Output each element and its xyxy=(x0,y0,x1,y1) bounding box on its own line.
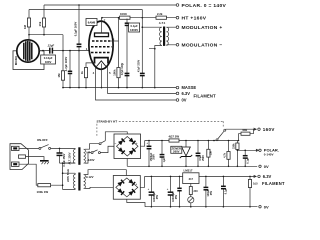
svg-text:0.1µF: 0.1µF xyxy=(246,157,249,164)
svg-text:ALT. 230V: ALT. 230V xyxy=(68,152,72,164)
capacitor 4.7uF 160V (x=70) xyxy=(64,50,72,88)
resistor 1k cathode (x=86) xyxy=(80,63,96,88)
svg-text:LM317: LM317 xyxy=(184,169,193,173)
svg-text:4.7k: 4.7k xyxy=(223,152,226,157)
svg-text:0.1µF 160V: 0.1µF 160V xyxy=(73,22,77,37)
tube heater xyxy=(97,61,107,67)
wire: primary common (x=62.6) xyxy=(60,162,76,189)
svg-text:317: 317 xyxy=(189,177,194,181)
svg-text:6.3V: 6.3V xyxy=(263,174,272,179)
capacitor 47uF 250V (x=196.5) xyxy=(196,141,205,168)
svg-text:47µF 330V: 47µF 330V xyxy=(138,60,141,73)
wire: ground bus top circuit y=87.6 xyxy=(62,87,176,89)
svg-text:180k: 180k xyxy=(112,69,116,76)
stand-by switch contacts (T1 secondary) xyxy=(85,132,128,163)
svg-text:2.2k: 2.2k xyxy=(157,12,163,16)
capacitor 100uF 25V (x=205.9) xyxy=(204,176,213,207)
resistor 180k screen (x=118.5) xyxy=(111,18,120,88)
svg-text:→130V: →130V xyxy=(85,158,94,162)
resistor 1M grid leak (x=63) xyxy=(57,35,65,88)
svg-text:350V: 350V xyxy=(153,154,156,160)
svg-text:250V: 250V xyxy=(202,155,205,161)
terminal MASSE xyxy=(176,85,196,90)
capacitor 47uF 330V (x=142.3) xyxy=(138,10,145,89)
svg-text:15k: 15k xyxy=(38,21,42,26)
wire: 0V bus y=166.3 xyxy=(127,165,257,167)
svg-text:1Ω5: 1Ω5 xyxy=(253,183,258,186)
capacitor 10000uF 25V #2 (x=170.5) xyxy=(167,176,178,207)
wire: transformer return (x=154.8) xyxy=(149,48,156,88)
svg-text:240: 240 xyxy=(194,190,199,193)
tube pin numbers xyxy=(86,19,115,76)
svg-text:MODULATION +: MODULATION + xyxy=(182,25,223,31)
tube type label box 6AM6 xyxy=(86,19,97,26)
wire: live to switch xyxy=(19,147,39,149)
potentiometer (LM317 adj) xyxy=(188,197,194,208)
svg-text:MODULATION −: MODULATION − xyxy=(182,43,223,49)
svg-text:260V: 260V xyxy=(173,150,180,154)
svg-text:1k: 1k xyxy=(80,71,84,75)
svg-text:+: + xyxy=(135,182,137,186)
wire: bias node y=34.7 xyxy=(28,34,63,36)
bridge rectifier B2 xyxy=(113,176,140,200)
regulator LM317 xyxy=(183,169,199,187)
wire: HT line y=17.7 xyxy=(101,17,176,19)
resistor 100R (HT line) xyxy=(120,12,131,19)
bridge B2 input wiring xyxy=(85,170,127,189)
transformer AT1 (modulation) xyxy=(142,21,177,49)
resistor 15k (x=208.4) xyxy=(207,141,213,168)
svg-text:MASSE: MASSE xyxy=(182,85,197,90)
wire: grid line y=50.6 xyxy=(39,50,89,52)
wire: bottom 0V bus y=206.7 xyxy=(145,206,258,208)
svg-text:0.1µF 250V: 0.1µF 250V xyxy=(63,153,66,166)
svg-text:−: − xyxy=(115,141,117,145)
svg-text:25V: 25V xyxy=(156,194,159,199)
bridge rectifier B1 xyxy=(114,134,141,159)
transformer T2 (9-12V) xyxy=(73,173,93,191)
wire: 6.3V rail y=176.4 xyxy=(145,176,257,178)
svg-text:0V: 0V xyxy=(264,164,269,169)
stand-by switch (HT) xyxy=(216,129,226,141)
node: junction on polar rail xyxy=(78,4,80,6)
divider resistor 4.7k (x=228.5) xyxy=(223,141,230,168)
svg-text:100k 1W: 100k 1W xyxy=(37,190,49,194)
capacitor C1 0.12uF 160V (grid coupling) xyxy=(41,43,56,64)
capacitor 0.1uF 1600V + electrolytic 47uF (x=127) xyxy=(121,19,140,88)
vacuum tube V1 envelope xyxy=(89,21,113,69)
svg-text:25V: 25V xyxy=(210,190,213,195)
svg-text:4.7µF 160V: 4.7µF 160V xyxy=(64,57,68,72)
svg-text:160V: 160V xyxy=(263,127,275,132)
svg-text:A.T.1: A.T.1 xyxy=(159,21,166,25)
wire: polar top rail y=5 xyxy=(44,5,176,18)
bridge B1 output wiring xyxy=(127,141,145,167)
svg-text:160V: 160V xyxy=(45,60,52,64)
zener 260V (x=187.5) xyxy=(171,141,192,168)
terminal MODULATION - xyxy=(176,43,222,49)
svg-text:47µF 160V: 47µF 160V xyxy=(121,63,124,76)
terminal 0V (bottom) xyxy=(259,204,269,209)
terminal HT +160V xyxy=(176,16,207,22)
terminal POLAR 0-140V xyxy=(176,3,226,9)
svg-text:100Ω: 100Ω xyxy=(120,12,128,16)
terminal 0V xyxy=(176,98,187,103)
svg-text:STAND-BY HT: STAND-BY HT xyxy=(97,119,118,123)
svg-text:9-12V: 9-12V xyxy=(86,175,94,179)
capacitor 10000uF 25V #1 (x=151.4) xyxy=(148,176,159,207)
capacitor 1uF (x=179.5) xyxy=(177,176,181,207)
bridge B2 output wiring xyxy=(127,176,145,206)
svg-text:0-140V: 0-140V xyxy=(264,152,274,156)
capacitor 0.1uF 350V (x=245.2) xyxy=(243,150,250,168)
svg-text:6.3V: 6.3V xyxy=(182,91,191,96)
transformer T1 (HT 130V) xyxy=(63,147,95,182)
svg-text:25V: 25V xyxy=(175,194,178,199)
svg-text:ON-OFF: ON-OFF xyxy=(37,138,48,142)
svg-text:150k: 150k xyxy=(232,143,235,149)
svg-text:+: + xyxy=(136,141,138,145)
svg-text:1µF: 1µF xyxy=(163,157,166,162)
wire: HT rail W1 y=140.5 xyxy=(145,140,240,142)
svg-text:0V: 0V xyxy=(264,204,269,209)
svg-text:FILAMENT: FILAMENT xyxy=(194,93,217,98)
capacitor 0.1uF 160V (vertical line x=79 with plates) xyxy=(73,5,81,88)
resistor 4R7 2W (series HT) xyxy=(169,135,180,142)
terminal MODULATION + xyxy=(176,25,222,31)
svg-text:6AM6: 6AM6 xyxy=(88,20,96,24)
svg-text:230V 50Hz: 230V 50Hz xyxy=(66,168,70,182)
resistor 680 (stand-by bleed) xyxy=(239,128,254,140)
resistor (x=250 filament adj) xyxy=(248,176,258,207)
switch ON-OFF xyxy=(37,138,75,150)
mains plug xyxy=(10,144,29,170)
capacitor X 0.1uF across mains (x=59.5) xyxy=(57,148,66,166)
terminal 6.3V FILAMENT xyxy=(176,91,216,98)
svg-text:1M: 1M xyxy=(57,73,61,78)
svg-text:15k: 15k xyxy=(209,151,212,156)
terminal 0V (top) xyxy=(259,164,269,169)
svg-text:0.1µF: 0.1µF xyxy=(225,187,228,194)
tube grids (dashed) xyxy=(91,41,112,53)
resistor 2.2k (HT line) xyxy=(156,12,167,19)
wire: grid bias rail y=9.5 xyxy=(29,9,142,11)
resistor 240 (LM317 adj) xyxy=(189,187,198,197)
resistor R2 15k (top-left divider) xyxy=(38,18,46,35)
tube pin leads xyxy=(96,64,177,101)
svg-text:0V: 0V xyxy=(182,98,187,103)
capacitor 0.1uF (x=223.4) xyxy=(221,176,228,207)
capacitor 1500uF 350V (x=149) xyxy=(146,141,155,168)
microphone M1 (crystal mic, circle with element bars) xyxy=(17,35,39,62)
tube anode plate xyxy=(95,18,109,37)
wire: 160V rail xyxy=(226,129,257,134)
capacitor 1uF 250V (x=162) xyxy=(160,141,166,168)
tube cathode xyxy=(95,58,109,64)
svg-text:1600V: 1600V xyxy=(130,28,138,32)
svg-text:4Ω7 2W: 4Ω7 2W xyxy=(169,135,180,139)
svg-text:POLAR. 0 = 140V: POLAR. 0 = 140V xyxy=(182,3,227,9)
svg-text:680: 680 xyxy=(243,128,248,132)
microphone label box xyxy=(13,51,44,70)
stand-by dashed control line xyxy=(97,119,224,137)
chassis ground from plug xyxy=(26,157,49,165)
resistor R1 1M (top-left divider) xyxy=(23,10,30,35)
terminal 6.3V FILAMENT xyxy=(254,174,285,186)
svg-text:FILAMENT: FILAMENT xyxy=(262,181,285,186)
svg-text:HT +160V: HT +160V xyxy=(182,16,207,22)
svg-text:1M: 1M xyxy=(23,24,27,29)
svg-text:.12µF: .12µF xyxy=(47,43,54,47)
divider resistor 150k (x=237.4) xyxy=(232,141,239,168)
terminal POLAR 0-140V xyxy=(256,148,279,157)
wire: polar output xyxy=(237,149,257,151)
terminal 160V xyxy=(254,127,275,132)
neutral wire + resistor 100k 1W xyxy=(19,164,63,194)
